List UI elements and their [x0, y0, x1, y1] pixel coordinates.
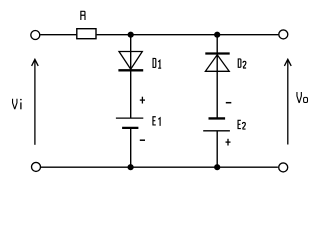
wire branch D1 lower: [130, 128, 132, 167]
resistor R1 body: [77, 29, 96, 39]
arrow Vo head: [284, 59, 291, 66]
wire branch D2 upper: [216, 35, 218, 119]
wire branch D1 upper: [130, 35, 132, 118]
polarity minus of E2: [226, 102, 232, 104]
label E2: [238, 120, 246, 129]
arrow Vo shaft: [287, 60, 289, 144]
node junction bottom D2: [214, 164, 220, 170]
label Vi: [13, 99, 22, 110]
terminal input top-left: [31, 31, 40, 40]
battery E2 positive plate (long): [203, 130, 230, 132]
terminal input bottom-left: [32, 162, 41, 171]
label R: [81, 11, 85, 20]
diode D2 cathode bar: [205, 52, 229, 54]
wire top rail left segment: [40, 34, 76, 36]
node junction top D1: [128, 32, 134, 38]
wire bottom rail: [41, 166, 278, 168]
diode D2 triangle: [205, 55, 229, 72]
label Vo: [297, 92, 308, 103]
terminal output top-right: [279, 30, 288, 39]
label D2: [238, 59, 246, 68]
diode D1 triangle: [119, 52, 142, 70]
polarity minus of E1: [140, 139, 145, 141]
arrow Vi head: [32, 59, 39, 66]
label D1: [153, 58, 161, 68]
diode D1 cathode bar: [118, 69, 143, 71]
node junction bottom D1: [128, 164, 134, 170]
node junction top D2: [214, 32, 220, 38]
terminal output bottom-right: [279, 163, 288, 172]
wire branch D2 lower: [216, 131, 218, 167]
polarity plus of E2: [226, 139, 231, 146]
label E1: [153, 117, 160, 126]
battery E1 negative plate (short thick): [122, 127, 138, 129]
arrow Vi shaft: [34, 60, 36, 145]
battery E2 negative plate (short thick): [209, 117, 226, 119]
battery E1 positive plate (long): [116, 117, 143, 119]
wire top rail right segment: [97, 34, 279, 36]
polarity plus of E1: [140, 97, 145, 104]
